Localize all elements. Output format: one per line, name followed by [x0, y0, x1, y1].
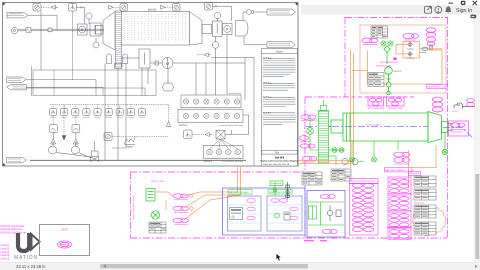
horizontal scrollbar thumb — [100, 264, 308, 268]
shaft centerline — [306, 126, 428, 128]
orange jog feed lines — [409, 145, 437, 188]
io tag group 3 — [388, 211, 411, 228]
package boundary dashed connector — [305, 96, 345, 98]
vibration panel 1 header green — [228, 190, 252, 195]
instrument square ST-1 — [69, 4, 77, 12]
off-page connector signal in — [7, 77, 27, 82]
tag ovals left column 3 — [300, 144, 315, 148]
svg-text:Ball Mill: Ball Mill — [148, 9, 157, 12]
motor auxiliary drops — [350, 141, 399, 162]
horizontal scrollbar track and status bar — [0, 262, 480, 270]
title band — [262, 151, 298, 155]
package boundary dashed bottom of logic area — [345, 96, 415, 98]
junction box 2 terminals — [207, 149, 241, 155]
svg-text:HOLD 02: Motor size: HOLD 02: Motor size — [1, 228, 23, 231]
instrument circle TI-21 — [214, 12, 220, 21]
setpoint table 4 — [414, 222, 436, 235]
svg-text:HOLD 03: Lube Tank unit: HOLD 03: Lube Tank unit — [1, 231, 27, 234]
setpoint table 1 — [414, 176, 436, 187]
vendor scope red rectangle — [360, 25, 446, 93]
logic diamond stop — [407, 52, 414, 60]
alarm tag list grid — [350, 184, 379, 236]
gear unit top fitting — [321, 100, 327, 111]
svg-text:BALL MILL GEARBOX: BALL MILL GEARBOX — [386, 169, 407, 172]
junction box 2 — [204, 145, 244, 158]
notes column divider — [253, 57, 255, 166]
wire pedestal right down — [112, 64, 126, 149]
setpoint table 2 — [414, 189, 436, 200]
legend note lines upper — [1, 225, 27, 234]
solenoid valve symbol — [51, 5, 58, 9]
console side label magenta — [133, 196, 135, 220]
svg-text:Ball Mill: Ball Mill — [275, 157, 285, 160]
svg-text:Level 04: Level 04 — [1, 255, 10, 257]
package boundary dashed top — [345, 17, 448, 19]
feed line off-page connector flag — [7, 13, 28, 18]
gearbox input shaft — [121, 57, 139, 59]
instrument square XV-3 above girth — [120, 4, 128, 12]
control valve on bottom pipe — [56, 141, 99, 162]
signal dashes XV-3 — [113, 6, 120, 8]
svg-text:Go/Nogo: Go/Nogo — [407, 48, 414, 50]
discharge bottom line — [244, 36, 267, 45]
alarm list table header — [350, 179, 379, 184]
vibration panel 1 internals — [229, 199, 259, 223]
instrument circle TI-11 — [86, 13, 92, 24]
feed instrument circle — [11, 27, 17, 33]
wire junction box right — [232, 115, 249, 135]
svg-text:Sign In: Sign In — [456, 8, 472, 14]
lube console boundary dashed left — [130, 172, 132, 238]
pilot circle A — [49, 144, 57, 154]
package boundary dashed left upper — [344, 18, 346, 98]
orange riser bottom connection — [238, 167, 241, 195]
lube tag cluster 1 — [173, 194, 189, 200]
io tag group 1 — [388, 177, 411, 194]
sign in label — [456, 8, 472, 14]
hand switch box A — [50, 116, 58, 133]
legend note lines lower — [1, 245, 10, 261]
svg-text:Start/Shutdown Logic: Start/Shutdown Logic — [428, 86, 447, 89]
svg-text:Go/Nogo: Go/Nogo — [407, 58, 414, 60]
pinion base box — [115, 64, 123, 69]
motor M1 — [162, 58, 173, 69]
title block — [261, 157, 299, 166]
train boundary dashed left — [304, 97, 306, 238]
instrument square XV-1 — [33, 4, 41, 12]
toolbar notification bell icon — [445, 6, 451, 13]
sheet corner arrow bottom-left — [3, 163, 6, 166]
drive end view box — [387, 97, 405, 110]
tag stack right — [426, 28, 436, 45]
svg-text:NOTE 3: NOTE 3 — [394, 71, 402, 73]
horizontal scrollbar right arrow — [475, 265, 477, 269]
instrument square XV-4 above drum — [173, 4, 181, 12]
motor non drive end bell — [428, 112, 442, 143]
svg-text:SUPPLY UNIT: SUPPLY UNIT — [151, 181, 165, 183]
svg-text:MOTOR SIDE VIEW: MOTOR SIDE VIEW — [368, 108, 385, 110]
svg-text:NOTE 4: NOTE 4 — [179, 124, 188, 127]
shaft centerline extension — [443, 128, 474, 140]
vibration cabinet outer blue box — [223, 188, 306, 235]
svg-text:Title: Title — [275, 151, 280, 154]
discharge hood — [236, 21, 249, 37]
svg-text:SHUTDOWN AND KEY: SHUTDOWN AND KEY — [380, 61, 400, 64]
revision cloud — [413, 207, 446, 236]
lube tag cluster 3 — [173, 218, 189, 224]
wire from flag area down left side — [40, 11, 42, 70]
coupling — [150, 61, 163, 65]
window minimize button — [449, 3, 454, 4]
orange lube header lines — [299, 161, 354, 164]
lube pump circle green — [151, 211, 159, 219]
lube oil green piping bottom — [319, 148, 346, 165]
summing box — [216, 130, 232, 139]
signal dashes to selector valve — [192, 134, 204, 136]
gearbox vib panel blue box — [307, 191, 345, 238]
gearbox — [139, 49, 150, 68]
black instrument drop — [286, 182, 289, 199]
riser arrow — [166, 122, 170, 127]
motor tag stack — [432, 97, 442, 113]
signal dashes XV-4 — [165, 6, 173, 8]
tag ovals left column 2 — [299, 136, 310, 142]
discharge top line with steam trap — [243, 10, 267, 21]
gear unit ladder column — [319, 111, 329, 164]
svg-text:Safety Data: Safety Data — [414, 202, 425, 205]
wire XV-3 down — [123, 10, 125, 13]
drum tube bundle — [125, 14, 186, 43]
junction box 1 upper — [181, 92, 242, 108]
gear data table right — [331, 169, 351, 181]
solenoid rack green box — [146, 181, 165, 201]
wire from connector right — [26, 80, 96, 96]
down arrow into valve — [62, 105, 66, 141]
orange distribution wiring — [156, 192, 241, 220]
bearing NDE housing box — [78, 24, 88, 35]
instrument signal header dashes — [50, 105, 169, 128]
solenoid valve XV-3 — [109, 5, 114, 9]
wire from feed flag to pipe — [28, 15, 57, 29]
bearing DE label box — [213, 21, 223, 37]
vibration transmitter box — [184, 130, 193, 139]
mouse cursor — [276, 254, 281, 261]
wire from ST-1 to bearing — [77, 6, 85, 24]
wire tag stack down — [430, 45, 433, 50]
bearing DE housing — [223, 24, 233, 35]
vertical scrollbar thumb — [475, 174, 479, 259]
selector arrow symbol — [205, 133, 212, 137]
start shutdown logic label box — [427, 85, 448, 89]
local control panel boundary — [33, 70, 156, 96]
off-page connector signal out — [7, 85, 27, 90]
green key label — [394, 71, 402, 73]
instrument bus lines right end — [212, 58, 255, 101]
instrument circle TI-22 — [212, 37, 219, 49]
window close button — [473, 1, 477, 5]
toolbar help icon — [435, 6, 442, 13]
orange logic wiring — [352, 44, 442, 84]
svg-text:33.11 x 23.38 in: 33.11 x 23.38 in — [16, 264, 46, 269]
logic diamond start — [407, 42, 414, 50]
motor drain tag ovals — [394, 152, 410, 164]
magenta warning text on motor — [366, 124, 381, 127]
key interlock green valves — [381, 41, 393, 46]
tag ovals lube inlet — [302, 156, 317, 162]
coupling guard green — [329, 120, 344, 133]
wire pedestal left down — [104, 64, 106, 161]
vibration panel 2 internals — [269, 199, 301, 223]
upmation logo play triangle — [30, 232, 41, 252]
junction box 2 labels — [204, 160, 244, 163]
note 4 paragraph — [263, 57, 296, 77]
io tag group 2 — [388, 194, 411, 211]
vent silencer symbol — [452, 103, 475, 113]
right edge tag ovals — [467, 99, 475, 107]
svg-text:On the Motor Housing: On the Motor Housing — [222, 160, 244, 163]
trunnion pedestal left — [107, 54, 112, 64]
drum right head — [189, 12, 202, 46]
sheet corner arrow bottom-right — [295, 163, 298, 166]
svg-text:Level 02: Level 02 — [1, 248, 10, 250]
signal dashes remote box to riser — [112, 136, 169, 138]
vent outlet off-page connector — [267, 42, 296, 48]
gear data table left — [302, 172, 322, 185]
strainer crown symbol — [125, 137, 136, 148]
trunnion pedestal right — [123, 54, 128, 64]
note label above tables — [414, 202, 425, 205]
alarm triangle A — [51, 133, 56, 145]
sheet corner arrow top-left — [3, 3, 6, 6]
local panel instrument row — [50, 105, 146, 118]
note box tag oval — [58, 241, 72, 248]
svg-text:MATION: MATION — [14, 255, 38, 261]
package boundary dashed bottom — [131, 237, 448, 239]
notes box — [262, 49, 298, 167]
package boundary dashed right — [447, 18, 449, 239]
vibration panel 1 blue box — [228, 196, 262, 231]
bottom pipe off-page connector — [7, 157, 27, 163]
signal wire to solenoid valve — [41, 6, 51, 8]
start permissive logic box orange — [403, 42, 420, 59]
bottom main pipe — [30, 159, 246, 161]
svg-text:Go/Nogo: Go/Nogo — [420, 52, 427, 54]
drum left head — [103, 12, 115, 51]
upmation logo U glyph — [18, 233, 29, 251]
drum girth gear column — [115, 11, 121, 67]
svg-text:Piping and Instrumentation Dia: Piping and Instrumentation Diagram — [261, 160, 299, 163]
upmation logo wordmark — [14, 255, 38, 261]
svg-text:NOTE: NOTE — [61, 229, 68, 232]
wire motor down — [167, 57, 169, 69]
svg-text:NOTE 4: NOTE 4 — [204, 160, 213, 163]
signal dashes to drain valve — [197, 54, 204, 56]
revision dashes below — [304, 240, 327, 242]
sheet border frame — [3, 3, 299, 167]
wire from out connector — [27, 87, 104, 95]
motor side view box — [368, 97, 385, 110]
svg-text:Junction Box: Junction Box — [228, 92, 241, 95]
svg-text:Notes: Notes — [276, 50, 283, 54]
wire XV-2 to bus — [213, 5, 232, 21]
gearbox inlet valve cluster — [307, 120, 319, 150]
gearbox vib panel internals — [308, 194, 344, 233]
pilot circle B — [71, 144, 79, 154]
space heater tag box — [449, 121, 469, 136]
drum label — [148, 9, 157, 12]
vibration panel 2 header green — [268, 190, 292, 195]
lube diamond 2 — [190, 207, 194, 211]
wires drum area to junction box — [196, 35, 227, 96]
junction box labels — [179, 124, 244, 127]
note 5 paragraph — [263, 83, 296, 90]
tag oval middle — [403, 33, 419, 40]
drum left shaft — [95, 26, 103, 35]
note box magenta title — [61, 229, 68, 232]
svg-text:Level 03: Level 03 — [1, 252, 10, 254]
alarm triangle B — [73, 133, 78, 145]
inline sight glass on feed pipe — [26, 28, 31, 33]
hand switch box B — [72, 116, 80, 133]
tag ovals left column 1 — [301, 115, 316, 121]
lube diamond 1 — [190, 194, 194, 198]
wire pinion down — [117, 69, 119, 161]
page navigation button — [470, 15, 476, 19]
junction box terminals — [183, 99, 239, 119]
lube data table — [149, 222, 166, 233]
svg-text:Inside the Motor Housing: Inside the Motor Housing — [219, 124, 244, 127]
app toolbar bar — [301, 5, 480, 15]
svg-text:DWG No.: BM-100-200-YR: DWG No.: BM-100-200-YR — [263, 164, 290, 166]
notes header — [276, 50, 283, 54]
svg-text:Level 05: Level 05 — [1, 259, 10, 261]
drum shell — [121, 12, 189, 46]
svg-text:NOTE 8: NOTE 8 — [452, 111, 459, 113]
wire ST-1 down to bus — [72, 11, 74, 80]
instrument hexagon HS-1 — [162, 69, 174, 92]
lube instrument circles — [342, 159, 364, 165]
sheet corner arrow top-right — [295, 3, 298, 6]
feed pipe — [18, 29, 104, 31]
lube console boundary dashed top — [131, 171, 306, 173]
lube tag cluster 2 — [173, 206, 189, 212]
green key diamond — [384, 46, 390, 64]
motor shaft stub fittings — [442, 122, 453, 155]
status bar zoom text — [16, 264, 46, 269]
fan wires to junction box 2 — [210, 139, 238, 149]
junction box 1 lower — [178, 109, 243, 122]
vertical scrollbar track — [475, 15, 480, 263]
toolbar feedback icon — [425, 6, 432, 13]
bearing NDE label box — [90, 23, 101, 36]
spec break on feed pipe — [48, 28, 52, 32]
io tag group 4 — [388, 227, 411, 239]
green key symbol — [385, 67, 393, 95]
note 6 paragraph — [263, 97, 296, 107]
svg-text:DRIVE END VIEW: DRIVE END VIEW — [388, 108, 403, 110]
shutdown matrix table — [371, 26, 388, 38]
window maximize button — [461, 1, 466, 5]
drain valve lower — [204, 53, 211, 57]
drum right shaft — [202, 25, 212, 34]
remote instrument box — [104, 133, 112, 141]
lube oil table — [368, 73, 384, 87]
ball mill gearbox label box — [385, 168, 413, 172]
svg-text:DO NOT START: DO NOT START — [366, 124, 381, 127]
drawing note box — [40, 225, 90, 256]
motor power wire — [173, 62, 245, 64]
wire bus left verticals — [25, 66, 145, 96]
product outlet off-page connector — [267, 9, 296, 15]
wire gearbox down — [142, 68, 148, 96]
setpoint table 3 — [414, 205, 436, 218]
svg-text:HOLD 01: Vendor data: HOLD 01: Vendor data — [1, 225, 25, 228]
instrument tag ovals left — [362, 38, 378, 44]
vibration panel 2 blue box — [267, 196, 302, 231]
wire XV-4 down — [175, 10, 177, 13]
solenoid valve XV-4 — [161, 5, 166, 9]
long orange risers to lube console — [351, 50, 354, 168]
main motor body — [343, 113, 428, 141]
svg-text:VIB. MONITOR RACK: VIB. MONITOR RACK — [229, 191, 250, 194]
shutdown key magenta label — [376, 58, 400, 68]
reset oval — [420, 47, 428, 54]
instrument circle feed end — [93, 38, 99, 48]
green feed drop to cabinet — [270, 181, 283, 196]
io list header box — [409, 172, 421, 176]
note 7 paragraph — [263, 113, 296, 125]
svg-text:Level 01: Level 01 — [1, 245, 10, 247]
horizontal scrollbar left arrow — [103, 264, 106, 268]
instrument square XV-2 — [205, 3, 213, 11]
